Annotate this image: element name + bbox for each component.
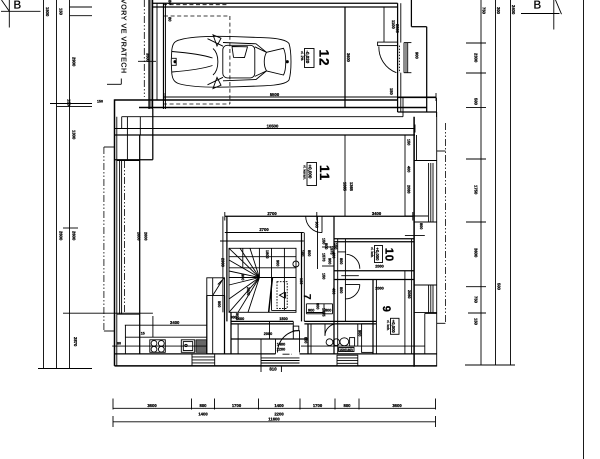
svg-text:9: 9: [380, 306, 392, 312]
svg-text:3400: 3400: [170, 320, 180, 325]
svg-text:800: 800: [419, 223, 423, 229]
svg-text:2900: 2900: [221, 258, 226, 268]
svg-text:1800: 1800: [265, 250, 269, 258]
closet top-left: [126, 117, 128, 160]
svg-text:2870: 2870: [73, 337, 78, 347]
garage small labels: [146, 0, 420, 95]
svg-text:11: 11: [317, 165, 332, 181]
bottom right step: [425, 312, 437, 314]
left dim tick y104: [50, 103, 92, 105]
svg-text:150: 150: [474, 318, 479, 326]
right dim ticks: [466, 42, 486, 44]
entry threshold steps: [261, 358, 300, 372]
svg-text:900: 900: [308, 309, 314, 313]
hall dim box: [306, 304, 332, 314]
room 10 door swing: [347, 254, 360, 268]
svg-text:800: 800: [344, 403, 352, 408]
right window 2: [414, 285, 437, 313]
section marker B top-left: [1, 0, 41, 28]
svg-text:-0,020: -0,020: [305, 51, 310, 64]
garage utility bottom lines: [398, 97, 437, 99]
svg-text:2900: 2900: [72, 57, 77, 67]
svg-text:150: 150: [407, 139, 411, 145]
corridor top line: [220, 240, 304, 242]
stair treads horizontal: [229, 256, 296, 258]
svg-text:150: 150: [97, 100, 103, 104]
left window glazing: [119, 161, 121, 314]
svg-text:1300: 1300: [72, 130, 77, 140]
hall door swing: [306, 216, 322, 232]
bath tiny box label: [293, 326, 299, 331]
svg-text:2000: 2000: [264, 332, 272, 336]
washbasin: [326, 339, 333, 346]
wc wall: [357, 324, 359, 346]
svg-text:900: 900: [276, 260, 280, 266]
svg-text:1570: 1570: [322, 253, 326, 261]
svg-text:900: 900: [315, 222, 319, 228]
house right wall: [413, 117, 415, 367]
svg-text:400: 400: [332, 288, 336, 294]
house bottom wall inner: [115, 353, 276, 355]
bath right wall: [372, 280, 374, 355]
entry axis dashdot: [283, 353, 293, 355]
left dim tick y106: [57, 105, 93, 107]
svg-text:750: 750: [474, 296, 479, 304]
garage shaft: [404, 43, 412, 73]
left dimension line 2: [56, 0, 58, 369]
garage top wall outer: [149, 2, 398, 4]
shower: [362, 324, 373, 353]
svg-text:80: 80: [168, 17, 173, 22]
svg-text:300: 300: [496, 7, 501, 15]
bath label box: [339, 348, 354, 352]
section marker B top-right: [521, 0, 562, 30]
corner wall line: [344, 239, 346, 322]
garage left wall tick: [138, 60, 156, 62]
bath inner face line: [301, 345, 425, 347]
stair column circle: [293, 261, 299, 267]
bottom dimension chain line: [113, 407, 436, 409]
left dim tick y15.7: [70, 15, 93, 17]
bottom dim labels: [147, 403, 402, 422]
svg-text:3600: 3600: [474, 248, 479, 258]
left dim tick y228: [63, 227, 78, 229]
svg-text:1975: 1975: [322, 308, 326, 316]
stairs outline: [229, 248, 296, 312]
svg-text:11600: 11600: [268, 416, 280, 421]
wall partial lines: [341, 275, 359, 277]
car: [171, 35, 291, 89]
hall dim vertical: [317, 216, 319, 269]
stair-left wall below: [230, 312, 232, 353]
room 9 door swing: [345, 285, 359, 299]
sink: [181, 340, 194, 353]
left overhang dashdot: [103, 147, 105, 331]
svg-text:800: 800: [339, 287, 343, 293]
svg-text:2080: 2080: [407, 290, 411, 298]
leader hook under text: [107, 83, 121, 85]
garage door dashed outline: [163, 4, 228, 6]
svg-text:vl. kob.: vl. kob.: [370, 247, 374, 258]
svg-text:900: 900: [217, 301, 221, 307]
kitchen counter: [125, 336, 206, 338]
garage right step: [410, 0, 412, 27]
svg-text:400: 400: [407, 166, 411, 172]
left dim labels: [45, 7, 78, 347]
garage bottom wall: [115, 99, 398, 101]
garage right interior wall: [344, 7, 346, 108]
left dimension line 3: [69, 0, 71, 369]
right wall mid lines: [405, 215, 428, 217]
room 11 elevation box: [307, 163, 317, 186]
room 10 bottom wall: [334, 270, 414, 272]
svg-text:2600: 2600: [246, 287, 250, 295]
house left inner face: [139, 135, 141, 354]
house top wall upper line: [122, 116, 403, 118]
svg-text:B: B: [14, 0, 22, 12]
hall left wall: [301, 233, 303, 322]
room 12 elevation box: [305, 49, 315, 68]
bath left wall: [307, 324, 309, 354]
svg-text:2000: 2000: [375, 265, 383, 269]
steps below bath: [337, 355, 358, 366]
svg-text:10500: 10500: [267, 123, 279, 128]
chimney: [207, 278, 225, 296]
svg-text:vl. kob.: vl. kob.: [386, 320, 390, 331]
svg-text:OTVORY VE VRATECH: OTVORY VE VRATECH: [120, 0, 127, 74]
hall small line: [307, 312, 324, 314]
room 10 elevation box: [375, 246, 383, 263]
svg-text:1500: 1500: [45, 7, 50, 17]
svg-text:2600: 2600: [137, 232, 141, 240]
svg-text:12: 12: [317, 50, 332, 67]
svg-text:1365: 1365: [343, 182, 348, 192]
svg-text:150: 150: [322, 273, 326, 279]
svg-text:7: 7: [301, 294, 312, 300]
garage side door lintel: [378, 42, 398, 46]
svg-text:2300: 2300: [395, 24, 400, 34]
garage dim stub: [383, 7, 385, 42]
svg-text:vl. keram.: vl. keram.: [303, 165, 307, 180]
junction verticals: [121, 117, 123, 129]
svg-text:2700: 2700: [259, 227, 269, 232]
svg-text:900: 900: [241, 274, 245, 280]
svg-text:800: 800: [304, 337, 308, 343]
entry door swing: [278, 331, 300, 353]
bottom overall dim line: [113, 421, 436, 423]
svg-text:+0,000: +0,000: [391, 320, 396, 334]
closet shelf lines: [322, 246, 334, 248]
room11 interior dim line: [344, 135, 346, 216]
house bottom wall outer: [115, 365, 437, 367]
right dimension line 3: [510, 0, 512, 365]
right bay face: [436, 112, 438, 367]
svg-text:1400: 1400: [274, 403, 284, 408]
interior dim line y232.5: [225, 232, 304, 234]
stair cut line: [269, 278, 273, 312]
dishwasher hatched: [196, 340, 207, 353]
svg-text:1500: 1500: [279, 317, 287, 321]
garage left wall gray band: [149, 0, 153, 109]
garage side door swing: [379, 46, 397, 72]
svg-text:vl. 2%: vl. 2%: [300, 51, 304, 61]
vestibule labels: [230, 316, 287, 372]
garage interior width dim: [164, 96, 436, 98]
house top wall dim line: [115, 128, 416, 130]
svg-text:900: 900: [328, 258, 332, 264]
hall small labels: [307, 222, 326, 257]
svg-text:2400: 2400: [511, 5, 516, 15]
room 9 right inner line: [404, 271, 406, 354]
cellar steps below wall kitchen: [192, 354, 215, 366]
svg-text:1400: 1400: [198, 412, 208, 417]
wall left of stairs: [226, 216, 228, 321]
svg-text:800: 800: [316, 303, 320, 309]
svg-text:1700: 1700: [313, 403, 323, 408]
svg-text:1750: 1750: [474, 185, 479, 195]
room 10 top wall: [334, 238, 414, 240]
garage outer right wall: [397, 3, 399, 112]
interior wall y216 (room11 bottom, with dim ticks): [225, 215, 413, 217]
right dimension line 2: [495, 0, 497, 365]
svg-text:150(180): 150(180): [339, 348, 353, 352]
right dim labels: [474, 5, 517, 326]
bath door swing: [325, 324, 337, 336]
svg-text:500: 500: [497, 283, 502, 291]
section dashdot at garage left: [143, 0, 145, 97]
right overhang dashdot: [444, 123, 446, 323]
right dimension end tick: [465, 364, 515, 366]
stair treads vertical: [242, 248, 244, 267]
svg-text:150: 150: [67, 99, 72, 107]
svg-text:750: 750: [482, 7, 487, 15]
svg-text:80: 80: [117, 342, 121, 346]
svg-text:900: 900: [358, 330, 362, 336]
svg-text:3600: 3600: [147, 403, 157, 408]
svg-text:2600: 2600: [59, 231, 64, 241]
toilet: [340, 338, 355, 347]
svg-text:1365: 1365: [349, 182, 354, 192]
kitchen area lines: [125, 324, 207, 326]
stair arrow symbol: [280, 292, 286, 298]
far right border line: [583, 0, 585, 459]
svg-text:1600: 1600: [236, 317, 244, 321]
svg-text:150: 150: [389, 88, 394, 95]
cooktop: [150, 340, 166, 353]
vestibule top wall: [231, 320, 293, 322]
stair fan: [229, 248, 259, 277]
svg-text:2080: 2080: [407, 185, 411, 193]
svg-text:500: 500: [474, 98, 479, 106]
svg-text:900: 900: [230, 316, 236, 320]
svg-text:+0,000: +0,000: [375, 248, 380, 262]
house left outer wall: [114, 99, 116, 366]
svg-text:800: 800: [339, 258, 343, 264]
room 9 elevation box: [391, 318, 400, 334]
svg-text:B: B: [534, 0, 542, 12]
svg-text:80: 80: [168, 0, 173, 5]
svg-text:2600: 2600: [72, 231, 77, 241]
svg-text:2600: 2600: [144, 232, 148, 240]
house top wall inner: [115, 134, 416, 136]
rooms left wall: [333, 216, 335, 354]
svg-text:800: 800: [200, 403, 208, 408]
svg-text:10: 10: [383, 248, 395, 262]
svg-text:2700: 2700: [267, 211, 277, 216]
svg-text:150: 150: [59, 8, 64, 16]
svg-text:900: 900: [415, 52, 420, 59]
bottom dim ticks: [113, 399, 436, 410]
svg-text:810: 810: [269, 367, 277, 372]
vestibule south wall: [231, 338, 307, 340]
garage top wall inner: [149, 6, 398, 8]
svg-text:1975: 1975: [330, 246, 334, 254]
svg-text:+0,000: +0,000: [308, 165, 313, 179]
left dimension line 1: [43, 0, 45, 369]
svg-text:3400: 3400: [372, 211, 382, 216]
svg-text:3600: 3600: [392, 403, 402, 408]
svg-text:2300: 2300: [474, 53, 479, 63]
svg-text:15: 15: [141, 331, 145, 335]
right window 1: [414, 161, 437, 223]
svg-text:1700: 1700: [232, 403, 242, 408]
left dim tick y7: [70, 6, 93, 8]
left dimension end tick: [38, 368, 92, 370]
scattered small dim labels: [97, 100, 423, 346]
stair left dim: [222, 216, 224, 312]
svg-text:5500: 5500: [270, 92, 280, 97]
pantry walls: [206, 296, 208, 354]
svg-text:800: 800: [307, 250, 311, 256]
svg-text:3600: 3600: [346, 53, 351, 63]
stair opening dashed: [277, 282, 287, 309]
stair small labels: [235, 250, 305, 319]
right dimension line 1: [480, 0, 482, 365]
svg-text:800: 800: [324, 243, 328, 249]
left dim tick y313: [63, 312, 153, 314]
door 10 lintel: [338, 251, 346, 253]
